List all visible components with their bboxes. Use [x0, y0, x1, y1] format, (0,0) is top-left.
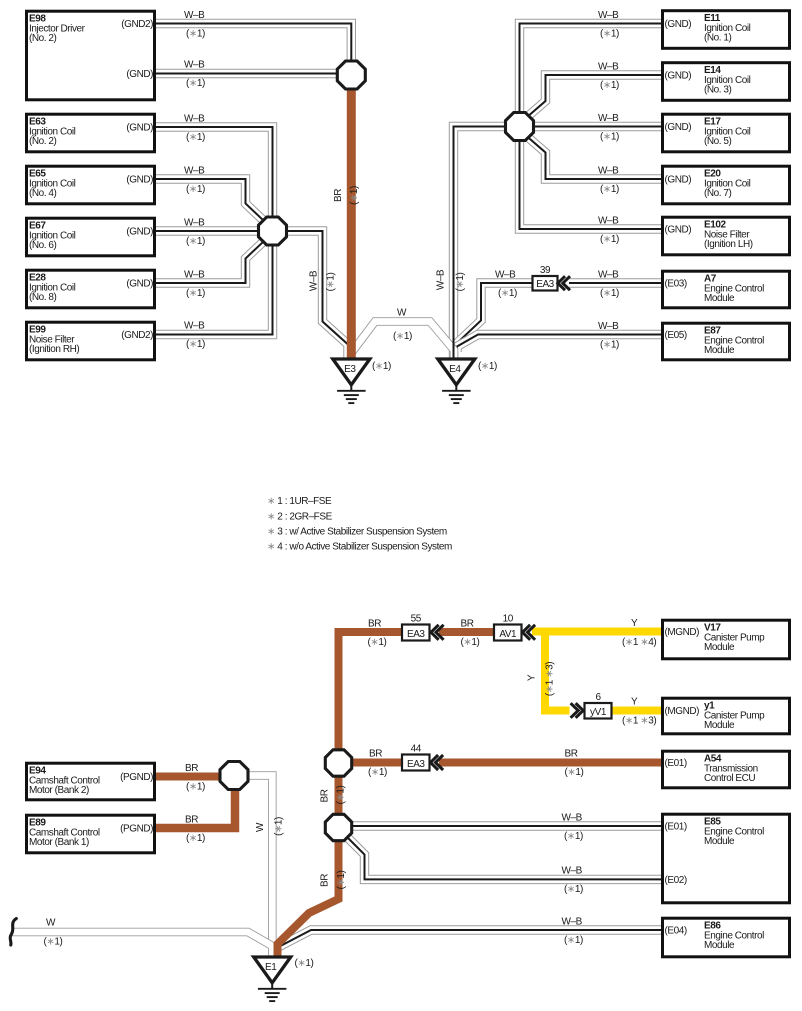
- wire W-B: E28 (GND) to junction J2: [156, 241, 264, 283]
- ground E4: [438, 359, 497, 403]
- svg-text:(∗1): (∗1): [600, 184, 619, 195]
- legend note *1..*4: [267, 496, 452, 552]
- component E102 Noise Filter (Ignition LH): [663, 217, 790, 255]
- svg-text:E1: E1: [265, 962, 277, 973]
- svg-text:(E05): (E05): [665, 330, 687, 341]
- svg-text:10: 10: [503, 614, 514, 625]
- wire BR: junction J1 to ground E3: [347, 88, 356, 360]
- connector EA3 pin 44: [402, 744, 430, 771]
- wire W-B: E87 (E05) to ground E4 bundle: [457, 335, 661, 353]
- svg-text:(∗1): (∗1): [368, 767, 387, 778]
- svg-text:(∗1): (∗1): [498, 288, 517, 299]
- junction J2 (ignition coil splice LH): [259, 217, 287, 245]
- component y1 Canister Pump Module: [663, 698, 790, 734]
- wire Y: chevron AV1 to V17 (MGND): [532, 628, 661, 636]
- svg-text:(∗1): (∗1): [186, 78, 205, 89]
- connector chevron at yV1 (pointing right): [571, 703, 584, 718]
- wire BR: chevron EA3-55 to connector AV1: [439, 628, 494, 636]
- svg-text:W–B: W–B: [309, 270, 320, 291]
- svg-text:(No. 2): (No. 2): [29, 136, 57, 147]
- svg-text:(∗1 ∗3): (∗1 ∗3): [545, 662, 556, 696]
- component A7 Engine Control Module: [663, 271, 790, 308]
- ground E3: [333, 359, 391, 403]
- svg-text:E3: E3: [344, 364, 356, 375]
- component V17 Canister Pump Module: [663, 620, 790, 659]
- svg-text:(∗1): (∗1): [186, 339, 205, 350]
- component E85 Engine Control Module: [663, 814, 790, 903]
- component E65 Ignition Coil (No. 4): [27, 166, 155, 204]
- svg-text:Y: Y: [631, 697, 638, 708]
- svg-text:(∗1): (∗1): [186, 833, 205, 844]
- wire W-B: E67 (GND) to junction J2 left: [156, 226, 260, 235]
- svg-text:(∗1): (∗1): [600, 339, 619, 350]
- wire W-B: E98 (GND) to junction J1 left: [156, 69, 338, 78]
- connector EA3 pin 55: [402, 614, 430, 641]
- wire W-B core restored: J3-E4 vertical over W wire crossing: [453, 331, 455, 359]
- svg-text:Y: Y: [527, 674, 538, 681]
- component E28 Ignition Coil (No. 8): [27, 270, 155, 308]
- wire Y: connector yV1 to y1 (MGND): [611, 707, 661, 715]
- svg-text:(∗1): (∗1): [186, 184, 205, 195]
- component E67 Ignition Coil (No. 6): [27, 218, 155, 256]
- svg-text:(PGND): (PGND): [120, 772, 153, 783]
- svg-text:(∗1): (∗1): [349, 186, 360, 205]
- component E14 Ignition Coil (No. 3): [663, 63, 790, 101]
- ground E1: [254, 957, 314, 1001]
- svg-text:∗ 1 : 1UR–FSE: ∗ 1 : 1UR–FSE: [267, 496, 332, 507]
- svg-text:39: 39: [540, 265, 551, 276]
- svg-text:(∗1): (∗1): [600, 80, 619, 91]
- component E63 Ignition Coil (No. 2): [27, 114, 155, 152]
- svg-text:W–B: W–B: [598, 62, 619, 73]
- svg-text:(E01): (E01): [665, 758, 687, 769]
- svg-text:W–B: W–B: [598, 10, 619, 21]
- svg-text:(∗1): (∗1): [44, 936, 63, 947]
- svg-text:(Ignition RH): (Ignition RH): [29, 344, 79, 355]
- wire W-B: E11 (GND) to junction J3 top: [520, 24, 662, 114]
- svg-text:(∗1): (∗1): [186, 236, 205, 247]
- svg-text:Module: Module: [704, 836, 735, 847]
- svg-text:EA3: EA3: [407, 629, 425, 640]
- svg-text:(∗1): (∗1): [336, 870, 347, 889]
- wire W-B: junction J6 to E85 (E02): [347, 837, 662, 880]
- junction J5 (BR splice upper): [325, 750, 351, 776]
- svg-text:∗ 2 : 2GR–FSE: ∗ 2 : 2GR–FSE: [267, 511, 333, 522]
- svg-text:(∗1): (∗1): [326, 272, 337, 291]
- wire BR: junction J5 to connector EA3-44: [351, 759, 402, 767]
- svg-text:(GND): (GND): [126, 123, 153, 134]
- svg-text:(GND): (GND): [126, 227, 153, 238]
- svg-text:(∗1): (∗1): [368, 637, 387, 648]
- svg-text:BR: BR: [320, 874, 331, 887]
- svg-text:BR: BR: [368, 619, 381, 630]
- svg-text:55: 55: [411, 614, 422, 625]
- svg-text:(GND): (GND): [126, 69, 153, 80]
- svg-text:W–B: W–B: [598, 321, 619, 332]
- connector chevron at EA3-39: [558, 276, 570, 290]
- connector chevron at EA3-55: [431, 625, 444, 640]
- svg-text:(GND): (GND): [665, 122, 692, 133]
- svg-text:(GND2): (GND2): [121, 19, 153, 30]
- svg-text:(∗1): (∗1): [186, 28, 205, 39]
- wire W-B: E98 (GND2) to junction J1: [156, 24, 351, 63]
- junction J1 (E98 splice): [337, 61, 365, 89]
- svg-text:(∗1 ∗4): (∗1 ∗4): [622, 637, 656, 648]
- wire BR: E89 (PGND) to junction J4 bottom: [156, 790, 235, 828]
- svg-text:BR: BR: [461, 619, 474, 630]
- svg-text:(Ignition LH): (Ignition LH): [704, 239, 753, 250]
- svg-text:(∗1): (∗1): [372, 361, 391, 372]
- svg-text:BR: BR: [320, 789, 331, 802]
- wire BR: junction J5 to junction J6: [335, 776, 343, 815]
- wire BR: junction J6 down to ground E1: [278, 840, 339, 956]
- wire W-B: ground E1 bundle to E86 (E04): [278, 930, 662, 948]
- break symbol (wire continues) on left W wire: [10, 919, 16, 946]
- wire W-B: junction J3 left down to ground E4: [454, 127, 507, 361]
- svg-text:(∗1): (∗1): [600, 28, 619, 39]
- connector yV1 pin 6: [585, 692, 612, 719]
- svg-text:(∗1): (∗1): [461, 637, 480, 648]
- svg-text:yV1: yV1: [590, 707, 607, 718]
- connector EA3 pin 39: [533, 265, 558, 291]
- svg-text:BR: BR: [565, 749, 578, 760]
- svg-text:W–B: W–B: [184, 166, 205, 177]
- svg-text:AV1: AV1: [499, 629, 517, 640]
- svg-text:E4: E4: [449, 364, 461, 375]
- wire W: junction J4 right down to ground E1: [247, 776, 272, 959]
- svg-text:W–B: W–B: [562, 916, 583, 927]
- svg-text:Motor (Bank 1): Motor (Bank 1): [29, 837, 89, 848]
- wire W-B: junction J2 right down to ground E3: [286, 231, 348, 360]
- svg-text:(E02): (E02): [665, 875, 687, 886]
- svg-text:W–B: W–B: [598, 166, 619, 177]
- svg-text:W–B: W–B: [436, 269, 447, 290]
- wire W: from break symbol to ground E1: [12, 932, 272, 957]
- svg-text:W–B: W–B: [184, 10, 205, 21]
- junction J3 (ignition coil splice RH): [506, 113, 534, 141]
- svg-text:(∗1): (∗1): [564, 831, 583, 842]
- svg-text:(No. 5): (No. 5): [704, 136, 732, 147]
- connector chevron at AV1: [523, 625, 536, 640]
- svg-text:(E03): (E03): [665, 279, 687, 290]
- svg-text:Control ECU: Control ECU: [704, 773, 755, 784]
- svg-text:44: 44: [411, 744, 422, 755]
- svg-text:Y: Y: [631, 618, 638, 629]
- wire Y: branch down to connector yV1: [545, 632, 570, 711]
- svg-text:(GND): (GND): [665, 19, 692, 30]
- svg-text:(∗1): (∗1): [274, 817, 285, 836]
- svg-text:W–B: W–B: [184, 218, 205, 229]
- component E11 Ignition Coil (No. 1): [663, 11, 790, 49]
- svg-text:(No. 1): (No. 1): [704, 33, 732, 44]
- svg-text:(No. 3): (No. 3): [704, 85, 732, 96]
- component E98 Injector Driver (No. 2): [27, 11, 155, 100]
- svg-text:W–B: W–B: [598, 113, 619, 124]
- svg-text:(No. 6): (No. 6): [29, 240, 57, 251]
- svg-text:Module: Module: [704, 345, 735, 356]
- component E20 Ignition Coil (No. 7): [663, 166, 790, 204]
- svg-text:(∗1): (∗1): [478, 361, 497, 372]
- junction J6 (BR splice lower): [325, 814, 351, 840]
- svg-text:BR: BR: [185, 815, 198, 826]
- svg-text:W: W: [255, 822, 266, 832]
- wire W-B: E17 (GND) to junction J3 right: [532, 122, 661, 131]
- svg-text:(∗1): (∗1): [336, 785, 347, 804]
- svg-text:(∗1): (∗1): [600, 131, 619, 142]
- wire W-B: E99 (GND2) joining junction J2 bottom: [156, 245, 273, 335]
- svg-text:(∗1): (∗1): [186, 781, 205, 792]
- svg-text:W–B: W–B: [562, 866, 583, 877]
- svg-text:EA3: EA3: [536, 279, 554, 290]
- svg-text:W: W: [46, 917, 56, 928]
- svg-text:W–B: W–B: [598, 216, 619, 227]
- svg-text:(MGND): (MGND): [665, 706, 700, 717]
- svg-text:Module: Module: [704, 642, 735, 653]
- wire W-B: E65 (GND) to junction J2: [156, 179, 264, 221]
- svg-text:W–B: W–B: [495, 270, 516, 281]
- svg-text:6: 6: [595, 692, 601, 703]
- component E17 Ignition Coil (No. 5): [663, 114, 790, 152]
- svg-text:(∗1 ∗3): (∗1 ∗3): [622, 715, 656, 726]
- wire W-B: A7 (E03) to chevron at EA3-39: [569, 278, 661, 287]
- svg-text:(GND): (GND): [126, 175, 153, 186]
- svg-text:BR: BR: [185, 763, 198, 774]
- svg-text:(No. 8): (No. 8): [29, 292, 57, 303]
- svg-text:(MGND): (MGND): [665, 627, 700, 638]
- wire W-B: E14 (GND) to junction J3: [529, 75, 661, 116]
- svg-text:(∗1): (∗1): [564, 935, 583, 946]
- svg-text:(No. 2): (No. 2): [29, 33, 57, 44]
- svg-text:(∗1): (∗1): [455, 272, 466, 291]
- wire W: ground E3 bundle to ground E4 bundle: [352, 322, 454, 359]
- svg-text:(No. 4): (No. 4): [29, 188, 57, 199]
- svg-text:(PGND): (PGND): [120, 824, 153, 835]
- svg-text:BR: BR: [369, 749, 382, 760]
- svg-text:W: W: [397, 307, 407, 318]
- svg-text:(∗1): (∗1): [393, 331, 412, 342]
- wire W-B: junction J6 to E85 (E01): [351, 821, 661, 830]
- svg-text:BR: BR: [333, 189, 344, 202]
- svg-text:(GND): (GND): [665, 71, 692, 82]
- connector AV1 pin 10: [494, 614, 522, 641]
- component E86 Engine Control Module: [663, 918, 790, 957]
- svg-text:W–B: W–B: [184, 114, 205, 125]
- svg-text:(E01): (E01): [665, 822, 687, 833]
- svg-text:(E04): (E04): [665, 926, 687, 937]
- wire W-B: E102 (GND) to junction J3 bottom: [520, 140, 662, 229]
- wire BR: junction J5 up to connector EA3-55: [339, 632, 403, 751]
- svg-text:Module: Module: [704, 940, 735, 951]
- wire W-B: E20 (GND) to junction J3: [529, 138, 661, 179]
- svg-text:(GND): (GND): [665, 225, 692, 236]
- svg-text:(No. 7): (No. 7): [704, 188, 732, 199]
- svg-text:(∗1): (∗1): [295, 958, 314, 969]
- svg-text:(∗1): (∗1): [564, 884, 583, 895]
- svg-text:(∗1): (∗1): [600, 288, 619, 299]
- svg-text:(∗1): (∗1): [600, 234, 619, 245]
- svg-text:Motor (Bank 2): Motor (Bank 2): [29, 785, 89, 796]
- junction J4 (camshaft motor splice): [220, 762, 248, 790]
- svg-text:W–B: W–B: [184, 321, 205, 332]
- component E89 Camshaft Control Motor (Bank 1): [27, 815, 155, 853]
- svg-text:W–B: W–B: [184, 270, 205, 281]
- svg-text:∗ 3 : w/ Active Stabilizer Sus: ∗ 3 : w/ Active Stabilizer Suspension Sy…: [267, 527, 447, 538]
- svg-text:Module: Module: [704, 720, 735, 731]
- svg-text:(GND): (GND): [665, 175, 692, 186]
- component E99 Noise Filter (Ignition RH): [27, 322, 155, 360]
- svg-text:W–B: W–B: [562, 813, 583, 824]
- wire BR: E94 (PGND) to junction J4: [156, 773, 222, 781]
- wire BR: chevron EA3-44 to A54 (E01): [439, 759, 661, 767]
- component A54 Transmission Control ECU: [663, 751, 790, 788]
- svg-text:(∗1): (∗1): [186, 132, 205, 143]
- component E94 Camshaft Control Motor (Bank 2): [27, 763, 155, 800]
- wire W-B: connector EA3-39 to ground E4 bundle: [456, 283, 533, 352]
- svg-text:Module: Module: [704, 293, 735, 304]
- component E87 Engine Control Module: [663, 323, 790, 360]
- svg-text:W–B: W–B: [184, 60, 205, 71]
- svg-text:W–B: W–B: [598, 270, 619, 281]
- svg-text:(GND2): (GND2): [121, 330, 153, 341]
- svg-text:(GND): (GND): [126, 279, 153, 290]
- svg-text:∗ 4 : w/o Active Stabilizer Su: ∗ 4 : w/o Active Stabilizer Suspension S…: [267, 542, 452, 553]
- svg-text:(∗1): (∗1): [565, 767, 584, 778]
- svg-text:(∗1): (∗1): [186, 288, 205, 299]
- wire W-B: E63 (GND) to junction J2 top: [156, 127, 273, 219]
- connector chevron at EA3-44: [431, 755, 444, 770]
- svg-text:EA3: EA3: [407, 759, 425, 770]
